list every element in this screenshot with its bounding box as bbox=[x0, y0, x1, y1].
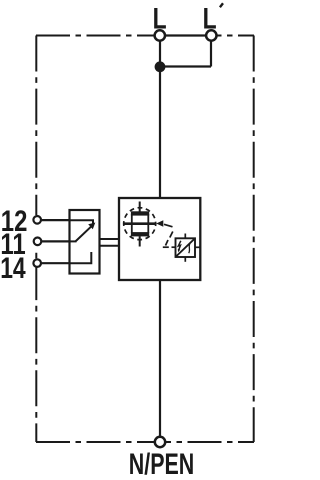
terminal N/PEN (open circle) bbox=[155, 437, 165, 447]
trigger unit bottom stub bbox=[184, 257, 186, 262]
spark gap top electrode lead bbox=[139, 202, 141, 212]
wire from SPD box down to N/PEN terminal bbox=[159, 280, 161, 443]
spark gap F1: dashed circle bbox=[124, 208, 156, 240]
trigger unit diagonal bbox=[176, 238, 196, 257]
wire from L' branch to junction bbox=[160, 65, 211, 67]
trigger arrow pointing at spark gap bbox=[156, 220, 163, 226]
wire terminal 12 to switch box bbox=[37, 219, 70, 221]
terminal L (open circle) bbox=[155, 30, 165, 40]
contact 12 line bbox=[70, 220, 94, 224]
wire from terminal L' down bbox=[210, 36, 212, 67]
switch arm with arrow bbox=[76, 227, 92, 242]
mechanical link (double line) to SPD box bbox=[100, 238, 120, 240]
trigger unit right stub bbox=[195, 246, 200, 248]
spark gap middle electrode line bbox=[124, 222, 155, 225]
svg-text:L: L bbox=[203, 2, 217, 35]
SPD main box bbox=[119, 198, 200, 280]
wire L to L' (top horizontal) bbox=[160, 34, 211, 36]
terminal 14 (open circle) bbox=[33, 259, 41, 267]
svg-text:N/PEN: N/PEN bbox=[129, 448, 195, 480]
terminal 11 (open circle) bbox=[34, 238, 42, 246]
spark gap bottom electrode lead bbox=[139, 236, 141, 246]
trigger unit box (varistor) bbox=[176, 238, 196, 257]
trigger unit top stub bbox=[184, 234, 186, 239]
switch box (remote signalling contact) bbox=[70, 210, 100, 274]
wire terminal 11 to switch box bbox=[37, 240, 70, 242]
wire from terminal L down to SPD box bbox=[159, 36, 161, 198]
spark gap bottom electrode bar bbox=[131, 232, 149, 236]
label L' bbox=[203, 2, 223, 35]
junction node (filled dot) bbox=[155, 61, 166, 72]
enclosure border (dash-dot outline of device) bbox=[36, 36, 254, 443]
terminal L' (open circle) bbox=[206, 30, 216, 40]
svg-text:14: 14 bbox=[0, 252, 26, 285]
contact 14 line with upward tick bbox=[70, 252, 92, 263]
spark gap left side bbox=[131, 214, 133, 233]
wire terminal 14 to switch box bbox=[37, 262, 70, 264]
contact 11 stub bbox=[70, 240, 77, 242]
spark gap top electrode bar bbox=[131, 211, 149, 215]
lightning bolt symbol bbox=[178, 241, 181, 250]
trigger line (dashed zigzag) bbox=[163, 224, 176, 247]
terminal 12 (open circle) bbox=[33, 216, 41, 224]
wave symbol bbox=[189, 244, 190, 253]
spark gap right side bbox=[147, 214, 149, 233]
svg-text:L: L bbox=[153, 2, 167, 35]
